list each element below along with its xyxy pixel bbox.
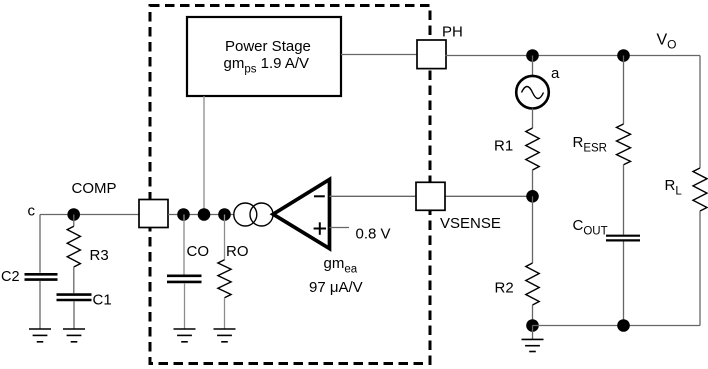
ground below R2 <box>522 326 544 352</box>
svg-text:COMP: COMP <box>72 180 117 197</box>
pin VSENSE <box>416 182 445 210</box>
svg-text:a: a <box>551 65 560 82</box>
ground below C2 <box>29 329 51 342</box>
capacitor C2 <box>25 274 58 279</box>
ground below CO <box>174 329 196 342</box>
resistor RESR <box>617 124 631 165</box>
wire node to R2 <box>532 196 534 263</box>
wire Resr branch from top rail <box>623 56 625 125</box>
wire VSENSE to feedback node <box>446 195 533 197</box>
node dot top rail / Resr branch <box>617 49 630 62</box>
wire C2 bottom lead <box>39 281 41 329</box>
wire CO top lead <box>183 215 185 275</box>
svg-text:C2: C2 <box>1 269 20 285</box>
wire RL branch from Vo corner <box>699 56 701 169</box>
pin PH <box>417 40 446 69</box>
node dot RO branch <box>218 208 231 221</box>
wire dot to R3 <box>73 215 75 227</box>
capacitor C1 <box>57 295 92 300</box>
svg-text:Power Stage: Power Stage <box>225 38 311 55</box>
svg-text:R3: R3 <box>90 247 109 264</box>
gm output circle right <box>250 203 273 226</box>
wire R3 to C1 <box>73 267 75 293</box>
op-amp U2 error amplifier triangle <box>273 179 329 248</box>
wire inverting input to VSENSE <box>330 195 417 197</box>
wire C1 bottom lead <box>73 301 75 329</box>
gm output circle left <box>234 203 257 226</box>
wire top rail PH to Vo <box>446 55 701 57</box>
power stage block U1 <box>187 17 341 96</box>
wire COUT to bottom rail <box>623 242 625 326</box>
svg-text:R2: R2 <box>495 279 514 296</box>
svg-text:VSENSE: VSENSE <box>440 215 501 232</box>
wire COMP pin to gm cell <box>168 214 234 216</box>
pin COMP <box>139 200 168 228</box>
svg-text:R1: R1 <box>494 138 513 155</box>
wire RO top lead <box>224 215 226 260</box>
capacitor COUT <box>606 236 640 241</box>
wire RL to bottom rail <box>699 211 701 326</box>
node dot power stage feed <box>198 208 211 221</box>
node dot bottom left <box>526 319 539 332</box>
wire noninverting input stub <box>330 227 350 229</box>
wire C2 top lead <box>39 215 41 273</box>
wire node c to COMP pin <box>40 214 139 216</box>
ground below RO <box>214 329 236 342</box>
svg-text:97 μA/V: 97 μA/V <box>309 279 363 296</box>
svg-text:C1: C1 <box>93 292 112 309</box>
svg-text:CO: CO <box>187 243 210 260</box>
node dot top rail / current source <box>526 49 539 62</box>
wire RESR to COUT <box>623 165 625 235</box>
ground below C1 <box>63 329 85 342</box>
wire top dot to current source <box>532 56 534 77</box>
wire R1 to feedback node <box>532 170 534 196</box>
capacitor CO <box>167 276 202 282</box>
svg-text:0.8 V: 0.8 V <box>356 226 391 243</box>
node dot feedback divider <box>526 190 539 203</box>
plus input mark <box>314 222 326 235</box>
IC boundary dashed box <box>150 6 430 364</box>
wire bottom rail <box>533 325 701 327</box>
svg-text:PH: PH <box>442 24 463 41</box>
wire current source to R1 <box>532 109 534 129</box>
wire power stage output to PH <box>341 54 417 56</box>
svg-text:c: c <box>28 203 36 220</box>
minus input mark <box>314 195 325 197</box>
wire RO bottom lead <box>224 298 226 329</box>
resistor R3 <box>67 226 80 267</box>
wire power stage bottom to comp node <box>203 96 205 215</box>
node dot bottom rail Cout branch <box>617 319 630 332</box>
node dot COMP network <box>67 208 80 221</box>
resistor RL <box>693 168 707 211</box>
current source a <box>516 76 549 109</box>
wire CO bottom lead <box>184 283 186 329</box>
resistor R1 <box>526 128 539 170</box>
resistor RO <box>218 260 231 298</box>
svg-text:RO: RO <box>226 243 249 260</box>
resistor R2 <box>526 263 539 305</box>
node dot CO branch <box>177 208 190 221</box>
wire R2 to bottom rail <box>532 305 534 326</box>
